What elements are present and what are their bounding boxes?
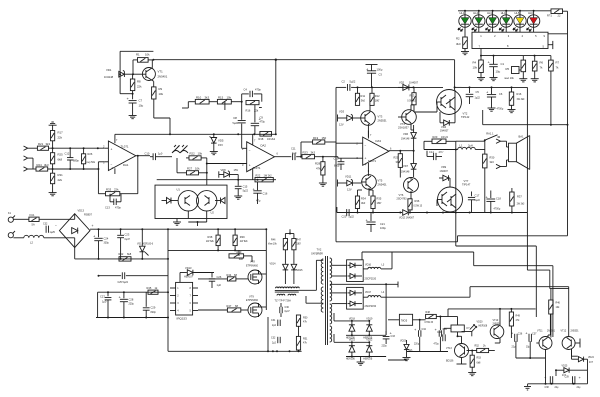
- svg-text:R47: R47: [227, 304, 232, 308]
- svg-text:6k8: 6k8: [477, 362, 482, 365]
- svg-text:R46: R46: [556, 302, 561, 305]
- svg-text:VD15: VD15: [297, 269, 304, 272]
- svg-text:1W 2k2: 1W 2k2: [264, 175, 273, 178]
- svg-text:3k3: 3k3: [490, 160, 495, 164]
- svg-text:R?1: R?1: [547, 14, 552, 18]
- svg-text:C9: C9: [260, 116, 264, 120]
- svg-text:TL071: TL071: [368, 159, 376, 163]
- svg-text:C12: C12: [65, 152, 70, 156]
- svg-text:180': 180': [377, 201, 382, 205]
- svg-text:DA2: DA2: [261, 143, 267, 147]
- svg-text:+: +: [119, 295, 122, 300]
- svg-text:1W 3k3: 1W 3k3: [517, 204, 526, 206]
- svg-text:100μ: 100μ: [377, 68, 383, 72]
- svg-text:5: 5: [190, 310, 192, 313]
- svg-text:+: +: [111, 147, 113, 151]
- svg-text:L1: L1: [460, 144, 463, 148]
- svg-text:VD17: VD17: [365, 291, 372, 294]
- svg-text:5: 5: [535, 34, 537, 38]
- svg-text:10μ: 10μ: [496, 70, 501, 74]
- svg-text:470p: 470p: [115, 206, 121, 210]
- svg-text:R42: R42: [119, 252, 124, 256]
- svg-text:R37: R37: [517, 195, 522, 199]
- svg-text:C37: C37: [532, 332, 537, 335]
- svg-text:1: 1: [177, 287, 179, 290]
- svg-text:2SC4793: 2SC4793: [397, 198, 408, 201]
- svg-text:VD1: VD1: [106, 68, 112, 72]
- svg-text:C6: C6: [499, 92, 503, 96]
- svg-text:HER10Б: HER10Б: [346, 358, 355, 360]
- svg-text:VT11: VT11: [537, 329, 543, 332]
- svg-text:180': 180': [297, 243, 302, 246]
- svg-text:R22: R22: [256, 174, 261, 178]
- svg-text:R4б: R4б: [271, 239, 276, 242]
- svg-text:0.5W 15: 0.5W 15: [407, 100, 416, 102]
- svg-text:0μ47: 0μ47: [125, 238, 131, 241]
- svg-text:2k: 2k: [483, 345, 486, 348]
- svg-text:5: 5: [543, 45, 545, 49]
- svg-text:2μ2: 2μ2: [272, 343, 277, 345]
- svg-text:R17: R17: [58, 131, 64, 135]
- svg-text:VD7: VD7: [403, 164, 409, 168]
- svg-text:C28: C28: [129, 298, 134, 302]
- svg-text:3k0: 3k0: [361, 99, 366, 103]
- svg-text:HER10?: HER10?: [184, 276, 194, 279]
- svg-text:R35: R35: [377, 197, 382, 201]
- svg-text:7k: 7k: [556, 66, 560, 70]
- svg-text:10k: 10k: [145, 53, 150, 57]
- svg-text:ETP9NK60: ETP9NK60: [246, 299, 259, 302]
- svg-text:22k: 22k: [137, 85, 142, 89]
- svg-text:C14: C14: [429, 150, 434, 154]
- svg-text:U2: U2: [211, 211, 215, 215]
- svg-text:5μ22: 5μ22: [233, 122, 239, 125]
- svg-text:+: +: [249, 163, 251, 167]
- svg-text:22: 22: [558, 14, 561, 18]
- svg-text:R2: R2: [456, 37, 460, 41]
- svg-text:7: 7: [190, 295, 192, 298]
- svg-text:150: 150: [322, 136, 327, 140]
- svg-text:C13: C13: [105, 206, 110, 210]
- svg-text:+: +: [92, 224, 94, 228]
- svg-text:BD136: BD136: [446, 360, 454, 363]
- svg-text:+: +: [486, 90, 489, 95]
- svg-text:−: −: [249, 149, 251, 153]
- svg-text:R8: R8: [137, 80, 141, 84]
- svg-text:R48: R48: [426, 311, 431, 314]
- svg-text:470μ: 470μ: [434, 344, 440, 346]
- svg-text:C24: C24: [104, 237, 109, 241]
- svg-text:+: +: [525, 330, 528, 335]
- svg-text:DA3: DA3: [376, 139, 382, 143]
- svg-text:4V7: 4V7: [589, 362, 594, 364]
- svg-text:2SCP2150: 2SCP2150: [365, 305, 377, 308]
- svg-text:R44: R44: [227, 273, 232, 277]
- svg-text:R18: R18: [259, 137, 264, 141]
- svg-text:D8: D8: [234, 116, 238, 120]
- svg-text:L2: L2: [30, 241, 33, 245]
- svg-text:820p: 820p: [334, 165, 340, 168]
- svg-text:R7: R7: [556, 61, 560, 65]
- svg-text:C32: C32: [43, 223, 48, 226]
- svg-text:47n': 47n': [439, 150, 444, 154]
- svg-text:C4: C4: [244, 88, 248, 92]
- svg-text:5A: 5A: [32, 223, 35, 227]
- svg-text:+: +: [414, 327, 417, 332]
- svg-text:0μ47: 0μ47: [285, 311, 291, 313]
- svg-text:5μ22: 5μ22: [349, 216, 355, 219]
- svg-text:VD9: VD9: [441, 165, 447, 169]
- svg-text:10k: 10k: [473, 66, 478, 70]
- svg-text:C17: C17: [475, 194, 480, 198]
- svg-text:3k3: 3k3: [311, 151, 316, 155]
- svg-text:BA1: BA1: [519, 135, 524, 139]
- svg-text:−: −: [55, 224, 57, 228]
- svg-text:C38: C38: [545, 387, 550, 389]
- svg-text:C2: C2: [342, 80, 346, 84]
- svg-text:VT13: VT13: [446, 347, 452, 350]
- svg-text:Изм 10k: Изм 10k: [268, 244, 277, 246]
- svg-text:R45: R45: [147, 286, 152, 290]
- svg-text:R23: R23: [303, 151, 309, 155]
- svg-text:R16: R16: [246, 109, 251, 113]
- svg-text:VD14: VD14: [270, 263, 277, 266]
- svg-text:R15: R15: [218, 96, 224, 100]
- svg-text:VT3: VT3: [378, 115, 383, 119]
- svg-text:VD2: VD2: [399, 81, 405, 85]
- svg-text:C13: C13: [334, 157, 339, 161]
- svg-text:VT9: VT9: [249, 294, 254, 298]
- svg-text:6k8: 6k8: [239, 257, 244, 261]
- svg-text:1μ0: 1μ0: [158, 151, 163, 155]
- svg-text:R31: R31: [58, 173, 64, 177]
- svg-text:R10: R10: [196, 96, 202, 100]
- svg-text:C33: C33: [391, 335, 396, 338]
- svg-text:C1: C1: [501, 62, 505, 66]
- svg-text:1N4007: 1N4007: [440, 130, 449, 133]
- svg-text:R4: R4: [473, 61, 477, 65]
- svg-text:2N5551: 2N5551: [547, 330, 556, 332]
- svg-text:15V: 15V: [218, 143, 223, 147]
- svg-text:12V: 12V: [347, 188, 352, 192]
- svg-text:R21: R21: [38, 142, 44, 146]
- svg-text:22k: 22k: [58, 178, 63, 182]
- svg-text:330μ: 330μ: [104, 242, 110, 245]
- svg-text:10k: 10k: [159, 92, 164, 96]
- svg-text:VD24: VD24: [588, 357, 594, 359]
- svg-text:C25 5μ22: C25 5μ22: [118, 281, 129, 284]
- svg-text:R33: R33: [106, 188, 112, 192]
- svg-text:1k: 1k: [155, 286, 158, 290]
- svg-text:4700μ: 4700μ: [497, 108, 504, 111]
- svg-text:R51: R51: [303, 338, 308, 341]
- svg-text:220μ: 220μ: [414, 344, 420, 346]
- svg-text:R36: R36: [415, 199, 420, 203]
- svg-text:C30: C30: [285, 306, 290, 309]
- svg-text:820p: 820p: [151, 311, 157, 314]
- svg-text:VT2: VT2: [463, 112, 468, 116]
- svg-text:2N5401: 2N5401: [158, 75, 168, 79]
- svg-text:100μ: 100μ: [380, 226, 386, 230]
- svg-text:C18: C18: [496, 197, 501, 201]
- svg-text:1μ0: 1μ0: [217, 283, 222, 287]
- svg-text:C5: C5: [476, 90, 480, 94]
- svg-text:47k: 47k: [303, 321, 308, 324]
- svg-text:R5: R5: [506, 67, 510, 71]
- svg-text:R28: R28: [315, 162, 321, 166]
- svg-text:VD13: VD13: [185, 266, 192, 270]
- svg-text:TL071: TL071: [253, 166, 261, 170]
- svg-text:C16: C16: [263, 192, 268, 196]
- svg-text:22k: 22k: [114, 188, 119, 192]
- svg-text:HL2: HL2: [473, 11, 478, 15]
- svg-text:10μ: 10μ: [139, 104, 144, 108]
- svg-text:1N4007: 1N4007: [440, 170, 449, 173]
- svg-text:1μ0: 1μ0: [102, 300, 107, 304]
- svg-text:0.5W 15: 0.5W 15: [414, 206, 423, 208]
- svg-text:VD13: VD13: [78, 209, 85, 213]
- svg-text:2SA1837: 2SA1837: [398, 126, 409, 130]
- svg-text:R52: R52: [475, 345, 480, 348]
- svg-text:TIP142: TIP142: [461, 115, 470, 119]
- svg-text:C26: C26: [217, 275, 222, 279]
- svg-text:K1: K1: [8, 212, 12, 215]
- svg-text:R6: R6: [540, 61, 544, 65]
- svg-text:VD23: VD23: [400, 340, 407, 343]
- svg-text:C23: C23: [125, 233, 130, 237]
- svg-text:VT6: VT6: [399, 193, 404, 197]
- svg-text:C20: C20: [342, 215, 347, 219]
- svg-text:VD4: VD4: [441, 125, 447, 129]
- svg-text:2: 2: [494, 34, 496, 38]
- svg-text:VT7: VT7: [464, 179, 469, 183]
- svg-text:VD11: VD11: [345, 175, 352, 179]
- svg-text:10k: 10k: [198, 152, 203, 156]
- svg-text:+: +: [488, 60, 491, 65]
- svg-text:VD12 1N4007: VD12 1N4007: [399, 217, 415, 220]
- svg-text:C31: C31: [271, 319, 276, 322]
- svg-text:C32: C32: [271, 337, 276, 340]
- svg-text:470μ: 470μ: [260, 121, 266, 124]
- svg-text:R53: R53: [477, 357, 482, 360]
- svg-text:L4: L4: [382, 291, 385, 294]
- svg-text:7: 7: [370, 134, 372, 137]
- svg-text:VD21: VD21: [349, 338, 356, 341]
- svg-text:2SCP2150: 2SCP2150: [365, 277, 377, 280]
- svg-text:пер 50k: пер 50k: [87, 161, 96, 164]
- svg-text:HER108: HER108: [479, 326, 488, 328]
- svg-text:R30: R30: [490, 156, 495, 160]
- svg-text:TL071: TL071: [121, 145, 129, 149]
- svg-text:VD16: VD16: [365, 263, 372, 266]
- svg-text:C21: C21: [380, 222, 385, 226]
- svg-text:10k: 10k: [227, 96, 232, 100]
- svg-text:1N4148: 1N4148: [104, 75, 114, 79]
- svg-text:R27: R27: [187, 167, 193, 171]
- svg-text:C29: C29: [151, 306, 156, 310]
- svg-text:12V: 12V: [339, 123, 344, 127]
- svg-text:7: 7: [479, 45, 481, 49]
- svg-text:K?: K?: [467, 327, 471, 330]
- svg-text:R40: R40: [237, 250, 242, 254]
- svg-text:1N4148: 1N4148: [401, 138, 410, 141]
- svg-text:2W 62k: 2W 62k: [240, 241, 249, 243]
- svg-text:C10: C10: [145, 151, 150, 155]
- svg-text:C27: C27: [100, 295, 105, 299]
- svg-text:VD3: VD3: [339, 110, 345, 114]
- svg-text:0.5W 33: 0.5W 33: [425, 322, 434, 324]
- svg-text:22k: 22k: [58, 136, 63, 140]
- svg-text:6k8: 6k8: [127, 252, 132, 256]
- svg-text:R16: R16: [517, 92, 522, 96]
- svg-text:U1: U1: [177, 188, 181, 192]
- svg-text:1: 1: [480, 34, 482, 38]
- svg-text:R39: R39: [240, 235, 245, 239]
- svg-text:4: 4: [365, 164, 367, 167]
- svg-text:7k: 7k: [540, 66, 544, 70]
- svg-text:220μ: 220μ: [129, 303, 135, 306]
- svg-text:8: 8: [507, 44, 509, 48]
- svg-text:R34: R34: [361, 197, 366, 201]
- svg-text:R26: R26: [88, 152, 93, 156]
- svg-text:R1: R1: [136, 53, 140, 57]
- svg-text:R47: R47: [297, 239, 302, 242]
- svg-text:1μ22: 1μ22: [475, 97, 481, 100]
- svg-text:R12: R12: [375, 94, 380, 98]
- svg-text:2μH: 2μH: [468, 144, 473, 148]
- svg-text:HL1: HL1: [460, 11, 465, 15]
- svg-text:1μ0: 1μ0: [292, 151, 297, 155]
- svg-text:VT4: VT4: [400, 122, 405, 126]
- svg-text:+: +: [579, 375, 582, 380]
- svg-text:470p: 470p: [255, 88, 261, 92]
- svg-text:3: 3: [508, 34, 510, 38]
- svg-text:22μ: 22μ: [555, 387, 560, 389]
- svg-text:47k: 47k: [316, 167, 321, 171]
- svg-text:VT12: VT12: [561, 329, 567, 332]
- svg-text:R22: R22: [190, 152, 196, 156]
- svg-text:R11: R11: [361, 94, 366, 98]
- svg-text:3k3: 3k3: [46, 142, 51, 146]
- svg-text:VD20: VD20: [477, 321, 484, 324]
- svg-text:VT10: VT10: [493, 319, 499, 322]
- svg-text:VD6: VD6: [403, 132, 409, 136]
- svg-text:R9: R9: [159, 87, 163, 91]
- svg-text:8: 8: [190, 287, 192, 290]
- svg-text:6k8: 6k8: [58, 158, 63, 162]
- svg-text:+: +: [93, 234, 96, 239]
- svg-text:10k: 10k: [556, 306, 561, 309]
- svg-text:6: 6: [390, 148, 392, 151]
- svg-text:R13: R13: [410, 94, 415, 98]
- svg-text:2μ2: 2μ2: [272, 325, 277, 327]
- svg-text:TV2: TV2: [317, 248, 322, 252]
- svg-text:6: 6: [190, 302, 192, 305]
- svg-text:5μ22: 5μ22: [475, 199, 481, 202]
- svg-text:9: 9: [544, 34, 546, 38]
- svg-text:ETP9NK60: ETP9NK60: [246, 265, 259, 268]
- svg-text:1μ25: 1μ25: [50, 231, 56, 234]
- svg-text:3: 3: [177, 302, 179, 305]
- svg-text:6: 6: [277, 153, 279, 156]
- svg-text:3k0: 3k0: [361, 201, 366, 205]
- svg-text:1N4148: 1N4148: [401, 171, 410, 174]
- svg-text:3k3: 3k3: [205, 96, 210, 100]
- svg-text:7: 7: [254, 140, 256, 143]
- svg-text:HL6: HL6: [528, 11, 533, 15]
- svg-text:C11: C11: [291, 147, 296, 151]
- svg-text:HL3: HL3: [487, 11, 492, 15]
- svg-text:R25: R25: [58, 153, 64, 157]
- svg-text:2N5551: 2N5551: [571, 330, 580, 332]
- svg-text:68: 68: [234, 273, 237, 277]
- svg-text:47k: 47k: [303, 342, 308, 345]
- svg-text:мал 10k: мал 10k: [505, 77, 515, 80]
- svg-text:HER10Б: HER10Б: [363, 358, 372, 360]
- svg-text:HL5: HL5: [515, 11, 520, 15]
- svg-text:3k0: 3k0: [456, 42, 461, 46]
- svg-text:3: 3: [103, 161, 105, 165]
- svg-text:3k3: 3k3: [44, 163, 49, 167]
- svg-text:R24: R24: [37, 163, 43, 167]
- svg-text:VS1 MCR100-6: VS1 MCR100-6: [137, 244, 154, 246]
- svg-text:GATØRØR: GATØRØR: [311, 253, 323, 256]
- svg-text:C7: C7: [139, 99, 143, 103]
- svg-text:1W 2k2: 1W 2k2: [267, 138, 276, 141]
- svg-text:1N4007: 1N4007: [409, 81, 419, 85]
- svg-text:10k: 10k: [195, 167, 200, 171]
- svg-text:2W 62k: 2W 62k: [206, 241, 215, 243]
- svg-text:C40: C40: [437, 332, 442, 334]
- svg-text:1W 3k0: 1W 3k0: [517, 99, 526, 101]
- svg-text:R20: R20: [433, 135, 438, 139]
- svg-text:VT1: VT1: [158, 70, 164, 74]
- svg-text:220μ: 220μ: [382, 346, 388, 348]
- svg-text:+: +: [365, 157, 367, 161]
- svg-text:C3: C3: [379, 73, 383, 77]
- svg-text:C34: C34: [422, 328, 427, 331]
- svg-text:VT5: VT5: [378, 179, 383, 183]
- svg-text:4700μ: 4700μ: [494, 208, 501, 211]
- svg-text:R38: R38: [208, 235, 213, 239]
- svg-text:VD25: VD25: [562, 366, 568, 368]
- svg-text:R19: R19: [313, 136, 319, 140]
- svg-text:VD8: VD8: [221, 168, 227, 172]
- svg-text:2: 2: [242, 147, 244, 151]
- svg-text:IRQ153: IRQ153: [177, 317, 188, 321]
- svg-text:47μ: 47μ: [256, 199, 261, 203]
- svg-text:+: +: [511, 330, 514, 335]
- svg-text:7: 7: [116, 139, 118, 142]
- svg-text:R50: R50: [303, 317, 308, 320]
- svg-text:T1? TP-P 726A: T1? TP-P 726A: [275, 300, 292, 303]
- svg-text:R49: R49: [516, 315, 521, 318]
- svg-text:5μ22: 5μ22: [350, 80, 356, 84]
- svg-text:DA1: DA1: [123, 163, 129, 167]
- svg-text:C36: C36: [518, 332, 523, 335]
- svg-text:22μ: 22μ: [577, 387, 582, 389]
- svg-text:2N5401: 2N5401: [378, 183, 388, 187]
- svg-text:22μ: 22μ: [512, 347, 517, 349]
- svg-text:RS807: RS807: [84, 213, 92, 217]
- svg-text:C39: C39: [565, 377, 570, 379]
- svg-text:HL4: HL4: [501, 11, 506, 15]
- svg-text:L3: L3: [382, 263, 385, 266]
- svg-text:RA1.1: RA1.1: [486, 132, 494, 136]
- svg-text:1W 22: 1W 22: [441, 136, 449, 139]
- svg-text:680p: 680p: [73, 159, 79, 163]
- svg-text:R25: R25: [394, 156, 399, 160]
